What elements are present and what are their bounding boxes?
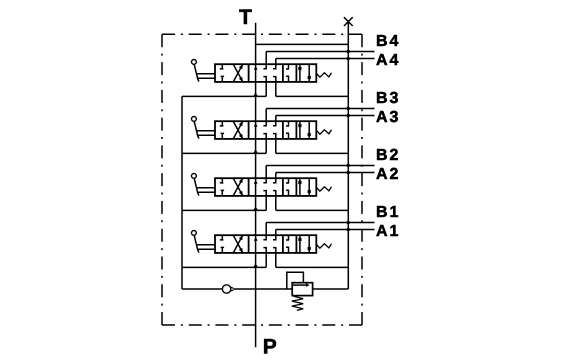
svg-text:P: P bbox=[263, 335, 277, 358]
svg-text:A2: A2 bbox=[376, 166, 400, 183]
svg-text:B1: B1 bbox=[376, 204, 400, 221]
svg-text:T: T bbox=[239, 6, 252, 29]
svg-text:A4: A4 bbox=[376, 52, 400, 69]
svg-text:A3: A3 bbox=[376, 109, 400, 126]
svg-text:B2: B2 bbox=[376, 147, 400, 164]
svg-text:B3: B3 bbox=[376, 90, 400, 107]
svg-text:B4: B4 bbox=[376, 33, 400, 50]
svg-text:A1: A1 bbox=[376, 223, 400, 240]
